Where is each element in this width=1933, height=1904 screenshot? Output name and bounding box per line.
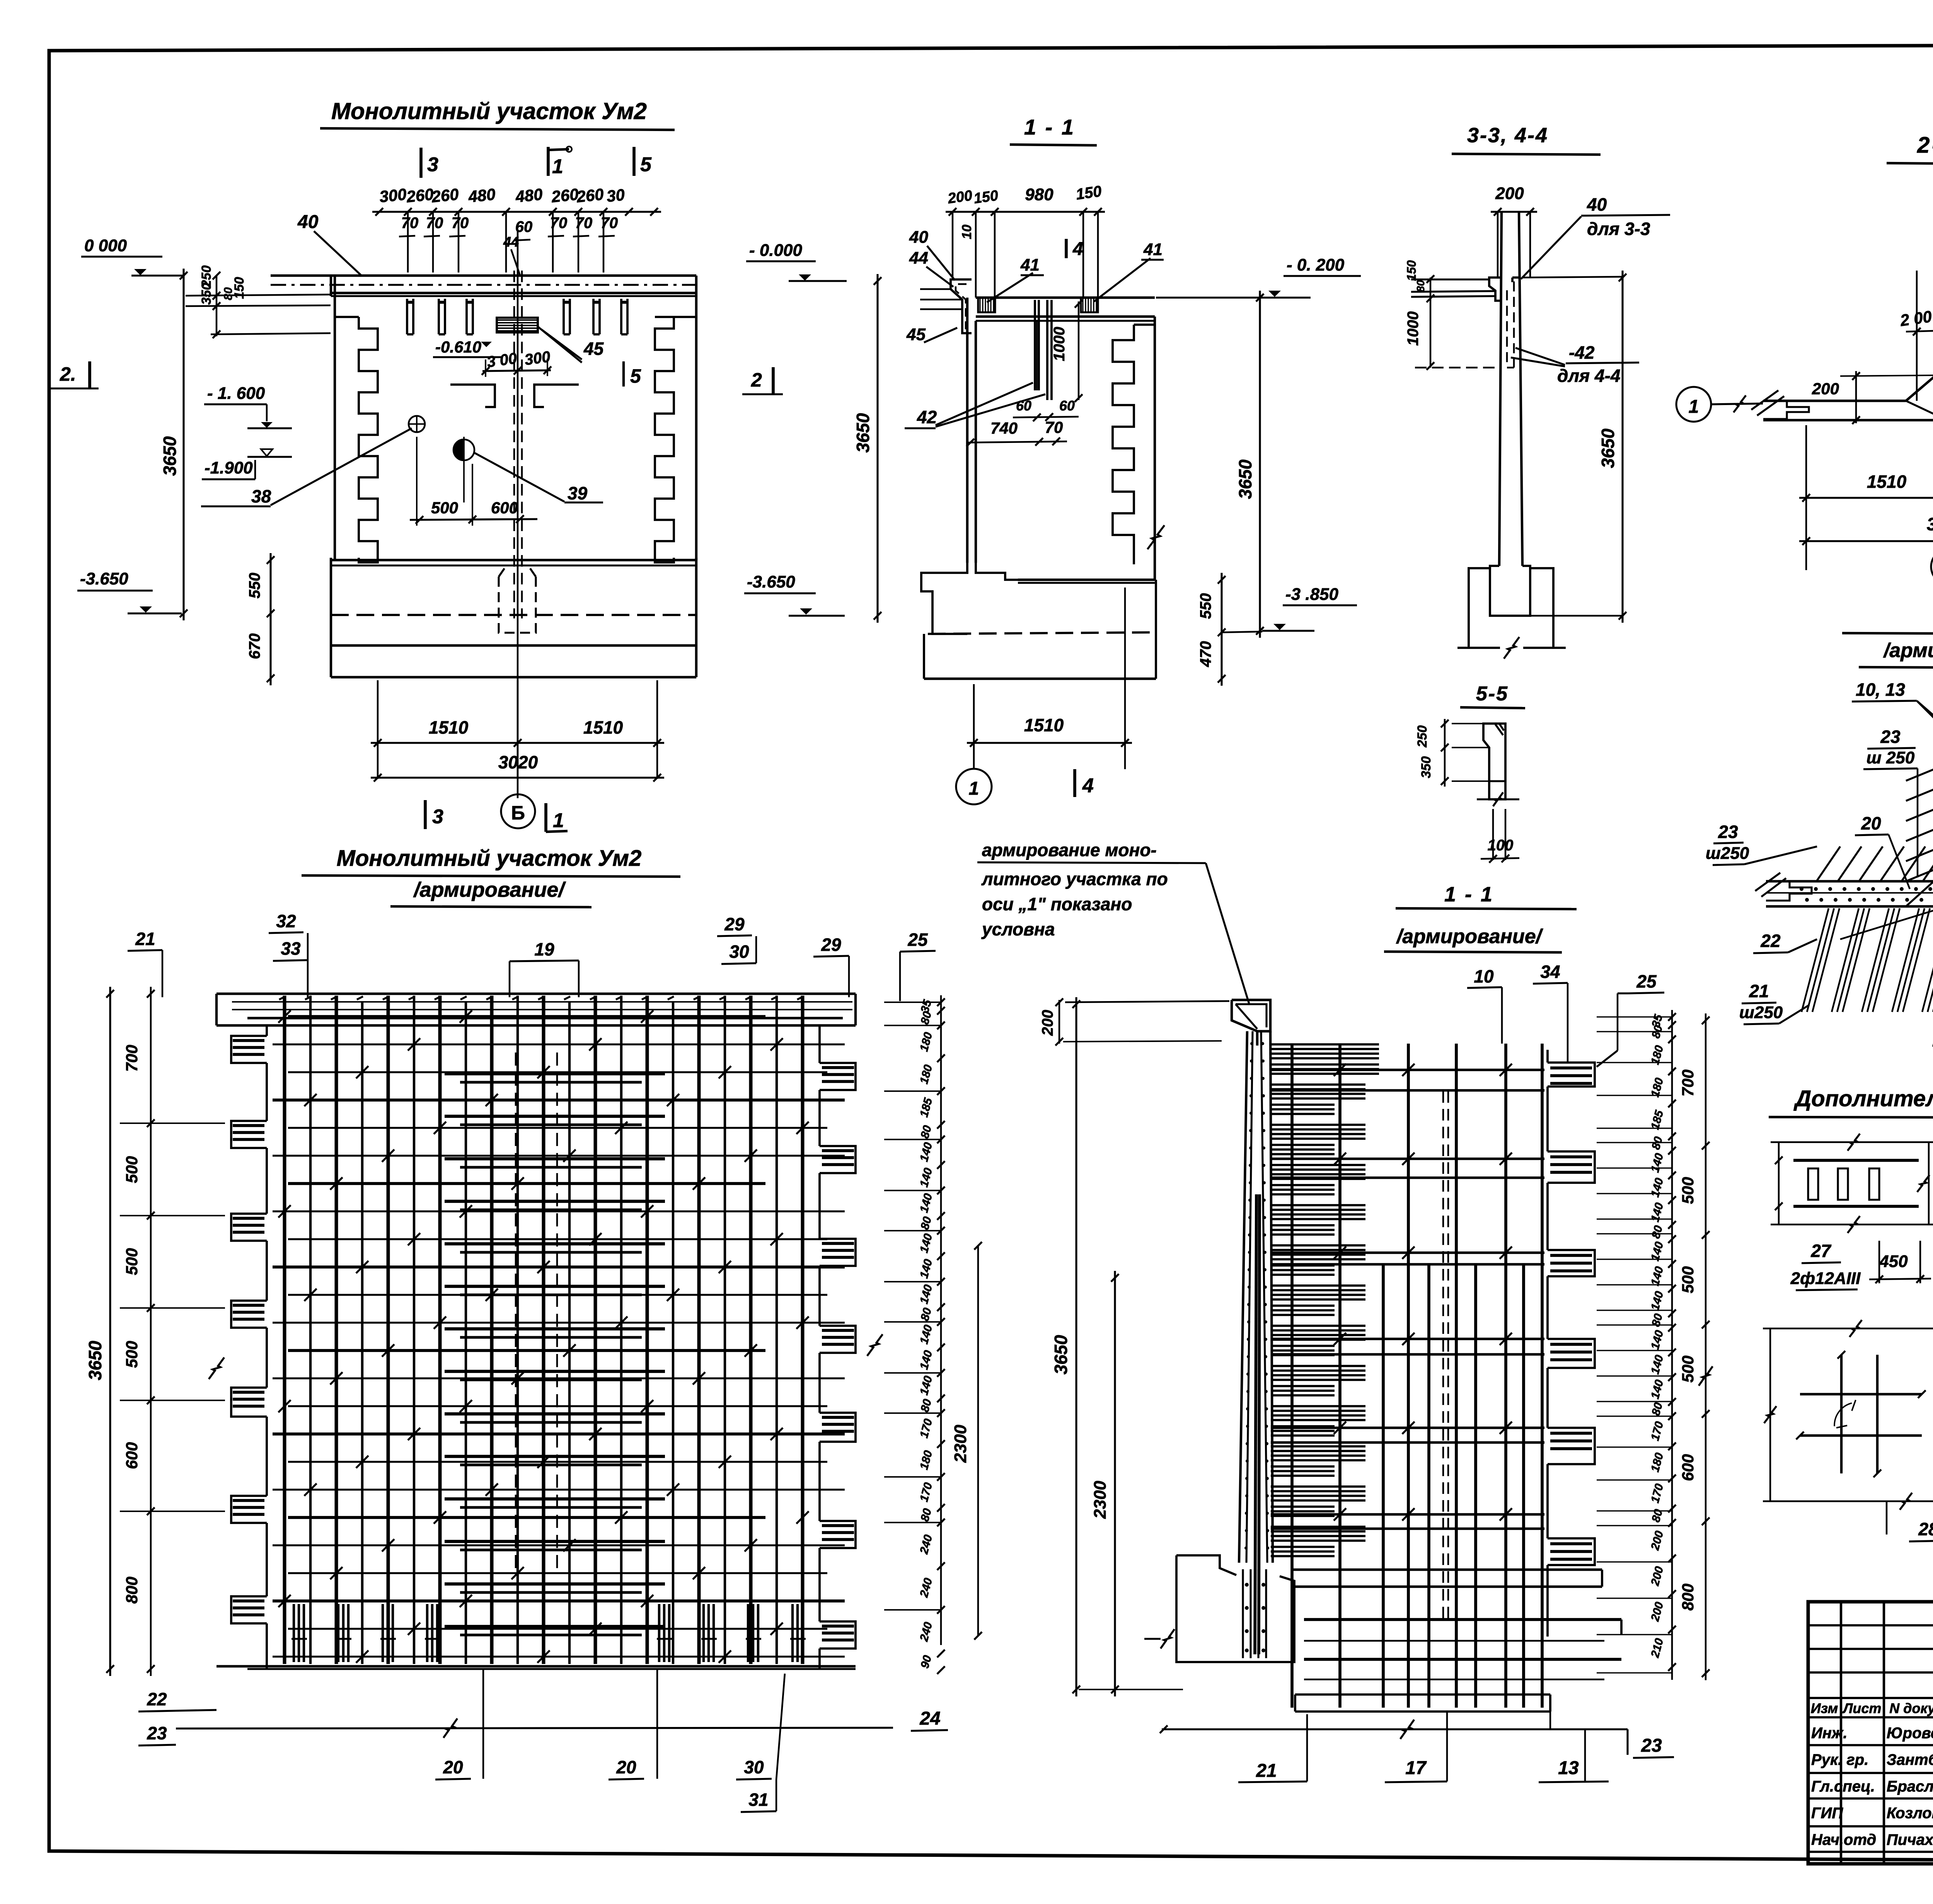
svg-text:ш250: ш250 [1739, 1003, 1783, 1022]
svg-text:500: 500 [1679, 1177, 1697, 1204]
svg-text:Б: Б [511, 802, 525, 824]
svg-text:80: 80 [222, 287, 235, 300]
svg-text:25: 25 [1636, 971, 1657, 991]
svg-text:армирование моно-: армирование моно- [982, 840, 1157, 860]
svg-text:250: 250 [199, 266, 214, 288]
svg-text:Монолитный участок Ум2: Монолитный участок Ум2 [337, 846, 642, 871]
svg-text:39: 39 [568, 483, 588, 503]
svg-text:1510: 1510 [429, 717, 469, 737]
svg-text:/армирование/: /армирование/ [1396, 925, 1544, 948]
svg-text:ГИП: ГИП [1811, 1805, 1843, 1822]
svg-text:Козловская: Козловская [1887, 1805, 1933, 1822]
svg-text:500: 500 [123, 1341, 141, 1368]
svg-text:740: 740 [990, 419, 1018, 437]
svg-text:13: 13 [1558, 1758, 1579, 1778]
svg-text:3: 3 [427, 153, 438, 176]
svg-text:260: 260 [430, 185, 460, 206]
svg-text:250: 250 [1415, 725, 1430, 748]
svg-text:Монолитный участок Ум2: Монолитный участок Ум2 [331, 98, 647, 124]
svg-text:3020: 3020 [498, 752, 538, 772]
svg-text:480: 480 [467, 185, 496, 206]
svg-text:Гл.спец.: Гл.спец. [1811, 1778, 1875, 1795]
svg-text:3650: 3650 [160, 436, 180, 476]
svg-text:-0.610: -0.610 [435, 338, 481, 356]
svg-text:10, 13: 10, 13 [1856, 680, 1905, 700]
svg-text:45: 45 [906, 325, 926, 344]
svg-text:260: 260 [405, 185, 435, 206]
svg-text:литного участка по: литного участка по [981, 869, 1168, 889]
svg-text:-42: -42 [1569, 342, 1595, 363]
svg-text:22: 22 [147, 1689, 167, 1709]
svg-text:1000: 1000 [1051, 327, 1068, 361]
svg-text:44: 44 [909, 249, 928, 267]
svg-text:20: 20 [1861, 813, 1881, 833]
svg-text:Лист: Лист [1842, 1700, 1882, 1716]
svg-text:2300: 2300 [951, 1425, 970, 1463]
svg-text:980: 980 [1025, 185, 1053, 204]
svg-text:30: 30 [744, 1757, 764, 1777]
svg-text:24: 24 [919, 1708, 940, 1729]
svg-text:500: 500 [431, 499, 458, 517]
svg-text:N документа: N документа [1889, 1700, 1933, 1716]
svg-text:23: 23 [147, 1723, 167, 1743]
svg-text:800: 800 [1679, 1584, 1697, 1611]
svg-text:1: 1 [969, 778, 979, 799]
svg-text:44: 44 [503, 234, 519, 250]
svg-text:3-3, 4-4: 3-3, 4-4 [1467, 124, 1548, 147]
svg-text:17: 17 [1405, 1758, 1427, 1778]
svg-text:5-5: 5-5 [1476, 683, 1509, 705]
svg-text:- 0. 200: - 0. 200 [1287, 255, 1345, 274]
svg-text:23: 23 [1718, 822, 1738, 842]
svg-text:41: 41 [1143, 240, 1163, 259]
svg-text:23: 23 [1641, 1735, 1662, 1756]
svg-text:25: 25 [907, 930, 928, 950]
svg-text:-3.650: -3.650 [80, 569, 128, 588]
svg-text:31: 31 [748, 1790, 768, 1810]
svg-text:1 - 1: 1 - 1 [1024, 115, 1075, 139]
svg-text:1510: 1510 [583, 717, 623, 737]
svg-text:550: 550 [246, 573, 263, 599]
svg-text:для 3-3: для 3-3 [1587, 219, 1650, 239]
svg-text:условна: условна [981, 919, 1055, 939]
svg-text:260: 260 [575, 185, 605, 206]
svg-text:оси „1" показано: оси „1" показано [982, 894, 1132, 914]
svg-text:40: 40 [909, 228, 928, 247]
svg-text:1: 1 [553, 809, 564, 832]
svg-text:0 000: 0 000 [84, 236, 127, 255]
svg-text:3020: 3020 [1927, 514, 1933, 534]
svg-text:Дополнительное армирование: Дополнительное армирование [1793, 1086, 1933, 1111]
svg-text:/армирование/: /армирование/ [413, 878, 566, 901]
svg-text:4: 4 [1082, 775, 1094, 797]
svg-text:600: 600 [123, 1442, 141, 1469]
svg-text:80: 80 [1415, 280, 1427, 292]
svg-text:1000: 1000 [1405, 312, 1422, 346]
svg-text:Браславский: Браславский [1887, 1778, 1933, 1795]
svg-text:1: 1 [552, 155, 563, 178]
svg-text:2-2: 2-2 [1917, 133, 1933, 158]
svg-text:29: 29 [724, 914, 745, 934]
svg-text:150: 150 [1405, 260, 1418, 281]
svg-text:Юровский: Юровский [1887, 1725, 1933, 1742]
svg-text:Инж.: Инж. [1811, 1725, 1848, 1742]
svg-text:40: 40 [297, 212, 319, 232]
svg-text:70: 70 [550, 215, 568, 232]
svg-text:2ф12АIII: 2ф12АIII [1790, 1269, 1861, 1288]
svg-text:700: 700 [123, 1045, 141, 1072]
svg-text:70: 70 [401, 215, 419, 232]
svg-text:700: 700 [1679, 1070, 1697, 1097]
svg-text:600: 600 [491, 499, 518, 517]
svg-text:23: 23 [1880, 727, 1901, 747]
svg-text:600: 600 [1679, 1454, 1697, 1481]
svg-text:300: 300 [378, 185, 407, 206]
svg-text:40: 40 [1587, 194, 1607, 215]
svg-text:470: 470 [1197, 641, 1214, 668]
svg-text:33: 33 [281, 938, 301, 959]
svg-text:1510: 1510 [1867, 472, 1907, 492]
svg-text:1 - 1: 1 - 1 [1444, 883, 1494, 906]
svg-text:-3.650: -3.650 [747, 572, 795, 591]
svg-text:29: 29 [821, 935, 841, 955]
svg-text:3650: 3650 [1598, 428, 1618, 468]
svg-text:260: 260 [550, 185, 580, 206]
svg-text:200: 200 [1495, 184, 1524, 203]
svg-text:800: 800 [123, 1577, 141, 1604]
svg-text:550: 550 [1197, 593, 1214, 619]
svg-text:200: 200 [946, 187, 973, 207]
svg-text:38: 38 [251, 486, 271, 506]
svg-text:70: 70 [426, 215, 443, 232]
svg-text:Зантберг: Зантберг [1887, 1751, 1933, 1768]
svg-text:670: 670 [246, 634, 263, 659]
svg-text:21: 21 [1749, 981, 1769, 1001]
svg-text:27: 27 [1810, 1241, 1832, 1261]
svg-text:3650: 3650 [853, 413, 873, 453]
svg-text:450: 450 [1879, 1252, 1908, 1271]
svg-text:21: 21 [135, 929, 155, 949]
svg-text:ш250: ш250 [1706, 844, 1749, 863]
svg-text:30: 30 [729, 942, 749, 962]
svg-text:-1.900: -1.900 [205, 458, 253, 477]
svg-text:70: 70 [575, 215, 593, 232]
svg-text:32: 32 [276, 911, 296, 931]
svg-text:21: 21 [1256, 1761, 1277, 1781]
svg-text:2300: 2300 [1091, 1481, 1110, 1519]
svg-text:41: 41 [1020, 255, 1040, 274]
svg-text:-3 .850: -3 .850 [1285, 585, 1339, 604]
svg-text:- 0.000: - 0.000 [749, 241, 803, 260]
svg-text:5: 5 [630, 365, 641, 387]
svg-text:3: 3 [432, 806, 443, 828]
svg-text:3650: 3650 [85, 1340, 105, 1380]
svg-text:2.: 2. [60, 363, 76, 385]
svg-text:2: 2 [751, 369, 762, 391]
svg-text:150: 150 [1075, 183, 1103, 203]
svg-text:100: 100 [1488, 837, 1514, 854]
svg-text:480: 480 [514, 185, 544, 206]
svg-text:Изм: Изм [1811, 1700, 1838, 1716]
svg-text:350: 350 [1419, 756, 1434, 778]
svg-text:3650: 3650 [1051, 1335, 1071, 1374]
svg-text:10: 10 [1474, 966, 1494, 986]
svg-text:70: 70 [601, 215, 618, 232]
svg-text:Рук. гр.: Рук. гр. [1811, 1751, 1868, 1768]
svg-text:500: 500 [123, 1156, 141, 1183]
svg-text:200: 200 [1812, 380, 1839, 398]
svg-text:1510: 1510 [1024, 715, 1064, 735]
svg-text:для 4-4: для 4-4 [1557, 366, 1620, 386]
svg-text:42: 42 [917, 407, 937, 427]
svg-text:70: 70 [1045, 418, 1063, 436]
svg-text:20: 20 [443, 1757, 463, 1777]
svg-text:10: 10 [960, 225, 974, 239]
svg-text:5: 5 [640, 153, 652, 176]
svg-text:34: 34 [1540, 962, 1560, 982]
svg-text:ш 250: ш 250 [1867, 748, 1915, 767]
svg-text:1: 1 [1689, 397, 1699, 417]
svg-text:20: 20 [616, 1757, 636, 1777]
svg-text:Нач.отд: Нач.отд [1811, 1831, 1876, 1848]
svg-text:70: 70 [452, 215, 469, 232]
svg-text:500: 500 [1679, 1356, 1697, 1383]
svg-text:60: 60 [1059, 398, 1075, 414]
svg-text:28: 28 [1918, 1519, 1933, 1539]
svg-text:45: 45 [583, 339, 604, 359]
svg-text:19: 19 [534, 939, 554, 959]
svg-text:500: 500 [1679, 1266, 1697, 1293]
svg-text:/армирование/: /армирование/ [1883, 639, 1933, 662]
svg-text:30: 30 [606, 186, 626, 206]
svg-text:150: 150 [973, 187, 999, 207]
svg-text:- 1. 600: - 1. 600 [207, 384, 265, 403]
svg-text:500: 500 [123, 1248, 141, 1275]
svg-text:200: 200 [1039, 1010, 1056, 1036]
svg-text:22: 22 [1760, 931, 1781, 951]
svg-text:3650: 3650 [1235, 459, 1255, 499]
svg-text:Пичахчи: Пичахчи [1887, 1831, 1933, 1848]
svg-text:4: 4 [1072, 239, 1083, 259]
